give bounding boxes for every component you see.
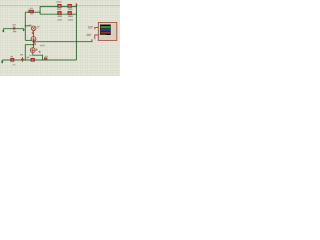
- lamp circle3: [30, 48, 37, 53]
- wire branch to LED D1 top: [25, 25, 31, 27]
- LED D1 circle1: [29, 24, 40, 30]
- wire mid-left ground link y=28.7: [3, 28, 23, 30]
- junction dot corner2: [33, 44, 35, 46]
- ground arrow left mid: [2, 29, 5, 33]
- wire corner2 vertical down to bottom rail: [24, 45, 26, 60]
- wire bottom rail y=60: [2, 59, 76, 61]
- LED D2 link and arrows below circle2: [34, 42, 36, 48]
- ground arrow at branch end x=23.7: [23, 29, 25, 32]
- LCD display: [98, 23, 117, 41]
- LED D1 link and arrows: [32, 31, 34, 37]
- LCD pin 2: [87, 34, 99, 39]
- wire row A top: [40, 7, 76, 15]
- lamp circle2: [31, 37, 36, 42]
- wire left branch y=12.2: [25, 11, 40, 13]
- capacitor C2 bottom: [20, 54, 29, 62]
- ground arrow bottom-left: [1, 60, 4, 64]
- resistor B1: [57, 11, 62, 20]
- LCD pin 1: [88, 26, 98, 29]
- wire row B: [40, 13, 76, 15]
- diode bottom: [44, 56, 48, 60]
- power tick on bus top: [76, 4, 77, 7]
- probe marker green near circle3: [39, 51, 41, 53]
- resistor L1 on left branch: [29, 8, 34, 15]
- capacitor C1 on mid-left wire: [12, 24, 16, 32]
- junction dots chain mid: [33, 40, 35, 42]
- toolbar divider line: [0, 5, 120, 6]
- wire vertical x=25.3: [24, 12, 26, 40]
- junction dots green: [39, 12, 40, 13]
- resistor RB2 bottom: [29, 55, 35, 62]
- resistor A1: [56, 1, 61, 10]
- wire vertical bus x=76.4: [75, 7, 77, 60]
- wire corner1 to chain mid junction: [25, 39, 33, 41]
- resistor A2: [68, 4, 73, 9]
- wire corner2 horizontal y=44.7: [25, 44, 34, 46]
- wire lamp chain bottom L: [33, 53, 43, 60]
- resistor B2: [68, 11, 73, 20]
- wire main output y=41.7 to LCD with stub: [35, 39, 92, 42]
- resistor RB1 bottom: [11, 56, 16, 66]
- label right of chain: [40, 45, 45, 46]
